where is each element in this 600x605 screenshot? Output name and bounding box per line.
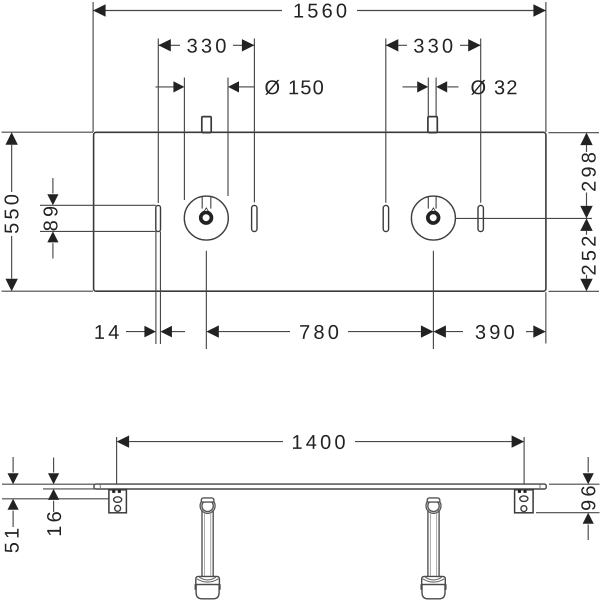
extension line: diameter32 left vertical (427, 78, 429, 117)
deck slab (side view) (94, 484, 546, 489)
dimension 1560 line (93, 10, 282, 12)
extension line: diameter150 right vertical (227, 78, 229, 197)
tap hole lines right (427, 197, 429, 209)
arrow diameter32 right (436, 81, 447, 92)
arrow 1560 left (93, 4, 106, 16)
label 780 (300, 325, 338, 339)
keyhole left ring (201, 212, 212, 223)
keyhole right ring (428, 212, 439, 223)
extension line: basin bottom edge extended right (549, 290, 600, 292)
dimension diameter150 tails (156, 86, 174, 88)
trap left (195, 498, 220, 599)
bracket left screws (112, 490, 115, 493)
arrow 550 top (5, 132, 17, 145)
arrow 330-right left (386, 39, 399, 51)
arrow 1560 right (533, 4, 546, 16)
keyhole right notch (432, 209, 435, 211)
dimension 14 (126, 331, 145, 333)
dimension 96 (587, 457, 589, 472)
dimension 298/252 line (586, 145, 588, 152)
bracket left oval hole (114, 497, 122, 503)
dimension 550 line (11, 145, 13, 192)
center line right basin (455, 217, 592, 219)
extension line: 330-right right vertical (480, 39, 482, 203)
dimension 780 (219, 331, 290, 333)
label 252 (582, 237, 596, 275)
trap left cup (196, 585, 219, 599)
trap right outer collar (426, 498, 441, 513)
reference line hole center extended left (2, 498, 109, 500)
extension line: 330-left left vertical (157, 39, 159, 204)
slot 3 (383, 205, 388, 231)
drain circle left (184, 196, 228, 240)
trap left side tabs (194, 584, 196, 590)
extension line: basin bottom edge extended left (2, 290, 94, 292)
keyhole right spout (430, 207, 437, 213)
89 top arrow and tail (52, 178, 54, 194)
arrow 330-left right (242, 39, 255, 51)
bracket right (515, 490, 534, 513)
label 51 (5, 529, 19, 553)
trap right inner ring (428, 500, 439, 511)
reference line deck bottom extended left (43, 488, 95, 490)
trap left pipe (201, 510, 203, 577)
center line below drain left (205, 251, 207, 349)
arrow diameter32 left (417, 81, 428, 92)
trap right nut (422, 576, 446, 584)
trap right side tabs (420, 584, 422, 590)
extension line 1400 right (523, 437, 525, 484)
trap right (421, 498, 446, 599)
dimension diameter32 tails (403, 86, 418, 88)
89 leader line top (40, 204, 156, 206)
label 1400 (293, 435, 345, 449)
label 96 (581, 486, 595, 510)
drain circle right (411, 196, 455, 240)
dimension 51 (12, 457, 14, 472)
arrow 298 top (580, 133, 592, 146)
trap right cap (427, 498, 440, 502)
bracket right round hole (521, 506, 527, 512)
dimension 330-right line (386, 44, 407, 46)
arrow 330-left left (158, 39, 171, 51)
deck end separator right (539, 484, 541, 489)
reference line deck top extended left (2, 483, 94, 485)
tap hole rect right (428, 117, 437, 133)
label 390 (476, 325, 514, 339)
trap right pipe (427, 510, 429, 577)
reference line bracket bottom extended right (536, 512, 600, 514)
slot 1 (14x89) (156, 205, 161, 231)
label 14 (95, 325, 118, 339)
label 1560 (294, 4, 346, 18)
label 298 (582, 153, 596, 191)
arrow 252 bottom (580, 279, 592, 292)
label 550 (4, 195, 18, 233)
reference line deck top extended right (549, 483, 600, 485)
slot 2 (252, 205, 257, 231)
extension line: diameter150 left vertical (183, 78, 185, 201)
extension line: 1560 right vertical (545, 2, 547, 132)
extension line: 1560 left vertical (92, 2, 94, 132)
dimension 330-left line (158, 44, 180, 46)
tap hole lines left (201, 197, 203, 209)
extension line basin right edge down (545, 292, 547, 343)
arrow 252 top (580, 218, 592, 231)
dimension 1400 (129, 441, 283, 443)
label 89 (43, 207, 57, 231)
extension line: diameter32 right vertical (435, 78, 437, 117)
89 leader line bottom (40, 230, 156, 232)
extension line 1400 left (116, 437, 118, 484)
keyhole left notch (205, 209, 208, 211)
label diameter150 (265, 80, 323, 95)
trap left cap (201, 498, 214, 502)
basin outline (top view) (94, 132, 546, 291)
deck end separator left (99, 484, 101, 489)
slot 4 (478, 205, 483, 231)
bracket left (109, 490, 127, 513)
dimension 390 (446, 331, 463, 333)
label 330-left (187, 39, 225, 53)
tap hole rect left (202, 117, 211, 133)
arrow 550 bottom (5, 279, 17, 292)
89 bottom arrow and tail (52, 243, 54, 258)
arrow diameter150 left (173, 81, 184, 92)
bracket right oval hole (520, 496, 528, 502)
trap left nut (196, 576, 220, 584)
extension line: 330-left right vertical (253, 39, 255, 203)
arrow diameter150 right (228, 81, 239, 92)
arrow 330-right right (468, 39, 481, 51)
extension line: 330-right left vertical (385, 39, 387, 203)
bracket right screws (518, 490, 521, 493)
keyhole left spout (203, 207, 210, 213)
label 16 (47, 512, 61, 535)
extension line: basin top edge extended left (2, 131, 94, 133)
extension line: basin top edge extended right (549, 132, 600, 134)
trap right cup (422, 585, 445, 599)
extension lines slot1 down (155, 232, 157, 344)
bracket left round hole (115, 505, 121, 511)
label 330-right (414, 39, 452, 53)
center line below drain right (432, 251, 434, 349)
arrow 298 bottom (580, 206, 592, 219)
trap left inner ring (202, 500, 213, 511)
dimension 16 (53, 458, 55, 473)
trap left outer collar (200, 498, 215, 513)
label diameter32 (471, 80, 516, 95)
